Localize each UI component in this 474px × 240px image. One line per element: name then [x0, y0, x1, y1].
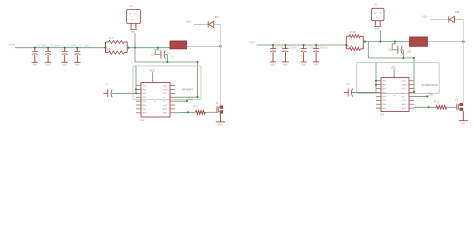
- wire left pins bus: [375, 63, 377, 93]
- wire lower net horizontal: [135, 61, 198, 63]
- pin 7 of IC2: [136, 108, 141, 110]
- pin 11 of IC2: [170, 104, 175, 106]
- ground under C4: [74, 61, 80, 63]
- wire source of T2 to ground: [462, 111, 464, 121]
- junction node left pin 2: [375, 84, 377, 86]
- pin 1 of IC4: [376, 80, 381, 82]
- svg-text:PB2: PB2: [382, 96, 387, 98]
- junction node cap C14: [315, 44, 317, 46]
- pin 14 of IC4: [409, 88, 414, 90]
- svg-text:OSC: OSC: [382, 81, 387, 83]
- svg-text:GND: GND: [301, 64, 306, 66]
- svg-text:+: +: [154, 99, 156, 103]
- ground under C14: [313, 61, 319, 63]
- pin 3 of IC4: [376, 88, 381, 90]
- svg-text:GND: GND: [62, 65, 67, 67]
- pins of G1: [130, 24, 132, 29]
- svg-text:GND: GND: [314, 64, 319, 66]
- fuse F1: [170, 41, 187, 49]
- junction node left pin 1: [375, 80, 377, 82]
- ground under C1: [32, 61, 38, 63]
- svg-text:+: +: [394, 94, 396, 98]
- svg-text:GND: GND: [270, 64, 275, 66]
- ground under C3: [62, 61, 68, 63]
- wire to diode D8: [430, 18, 449, 20]
- svg-text:C7: C7: [105, 84, 109, 87]
- svg-text:GND: GND: [217, 125, 222, 127]
- capacitor C12: [284, 45, 286, 49]
- svg-text:R 7: R 7: [109, 36, 114, 40]
- junction node cap C12: [284, 44, 286, 46]
- svg-text:GND: GND: [130, 31, 135, 33]
- svg-text:VS: VS: [402, 96, 405, 98]
- svg-text:F1: F1: [169, 52, 173, 55]
- wire G2 to rail: [379, 30, 381, 41]
- diode D8: [448, 16, 450, 22]
- svg-text:12: 12: [134, 14, 137, 16]
- wire VB+ rail: [257, 44, 347, 46]
- wire rail to fuse: [129, 47, 170, 49]
- svg-text:IC4: IC4: [380, 113, 385, 117]
- junction node cap C9 / rail: [157, 47, 159, 49]
- wire pin to gate resistor: [175, 111, 188, 114]
- junction node G1 / rail: [134, 47, 136, 49]
- wire pin to gate resistor: [414, 106, 429, 108]
- wire source of T1 to ground: [219, 113, 221, 122]
- wire C16 to lower net: [402, 49, 403, 51]
- wire drain vertical: [219, 24, 221, 105]
- svg-text:AN1: AN1: [402, 103, 407, 106]
- resistor R 7: [105, 42, 107, 53]
- pin 4 of IC4: [376, 92, 381, 94]
- svg-text:PWM: PWM: [402, 85, 407, 87]
- ground under C13: [300, 61, 306, 63]
- pin 10 of IC4: [409, 103, 414, 105]
- pin 5 of IC4: [376, 95, 381, 97]
- junction node left pin 3: [135, 92, 137, 94]
- svg-text:VCC: VCC: [391, 67, 396, 70]
- junction node lower net / right drop: [413, 57, 415, 59]
- svg-text:VS: VS: [163, 101, 166, 103]
- ground under C12: [282, 61, 288, 63]
- wire pin net with label: [414, 95, 428, 97]
- svg-text:PB2: PB2: [142, 101, 147, 103]
- pin 9 of IC2: [170, 112, 175, 114]
- svg-text:HT46R47: HT46R47: [182, 88, 194, 92]
- svg-text:100n: 100n: [279, 47, 285, 50]
- capacitor C2: [47, 48, 49, 52]
- svg-text:VDD: VDD: [402, 81, 407, 83]
- svg-text:3V3: 3V3: [429, 94, 434, 97]
- junction node cap C4: [76, 47, 78, 49]
- junction node pin net corner: [196, 96, 198, 98]
- node resistor pair output: [363, 41, 365, 43]
- ground under T1: [216, 121, 225, 123]
- component G2 (boxed part): [372, 8, 385, 20]
- pin 14 of IC2: [170, 92, 175, 94]
- wire diode D8 to drain line: [454, 18, 463, 20]
- svg-text:R 8: R 8: [106, 48, 111, 52]
- wire rail to lower net: [367, 42, 369, 58]
- junction node resistor pair input: [104, 47, 106, 49]
- pin 13 of IC2: [170, 96, 175, 98]
- svg-text:+: +: [376, 15, 378, 19]
- junction node cap C13: [303, 44, 305, 46]
- svg-text:100n: 100n: [310, 47, 316, 50]
- svg-text:C9: C9: [151, 53, 155, 56]
- junction node drain line: [219, 45, 222, 48]
- wire R 12 to gate: [447, 106, 457, 108]
- ground under T2: [459, 120, 468, 122]
- svg-text:AN1: AN1: [163, 108, 168, 111]
- junction node lower net / right drop: [196, 61, 198, 63]
- pin 6 of IC4: [376, 99, 381, 101]
- pins of G2: [374, 21, 376, 26]
- svg-text:12: 12: [379, 12, 382, 14]
- pin 15 of IC2: [170, 88, 175, 90]
- svg-text:GND: GND: [142, 113, 147, 115]
- svg-text:R 12: R 12: [434, 100, 440, 104]
- capacitor C17: [344, 92, 348, 94]
- left channel driver circuit: [8, 4, 225, 127]
- svg-text:100n: 100n: [292, 47, 298, 50]
- resistor R 8: [126, 42, 128, 53]
- resistor R 12: [436, 106, 447, 110]
- svg-text:10u: 10u: [170, 56, 175, 59]
- svg-text:T2: T2: [455, 99, 458, 102]
- svg-text:IO: IO: [163, 97, 166, 99]
- transistor T1 (n-MOSFET): [216, 106, 218, 113]
- capacitor C16: [392, 42, 398, 50]
- svg-text:GND: GND: [460, 123, 465, 125]
- wire C7 to pin: [112, 92, 136, 94]
- node resistor pair output: [127, 47, 128, 49]
- svg-text:C3: C3: [67, 44, 71, 47]
- op-amp / MCU IC2: [141, 82, 170, 117]
- svg-text:AN0: AN0: [402, 107, 407, 110]
- svg-text:G1: G1: [129, 4, 133, 8]
- resistor R 5: [196, 111, 206, 115]
- svg-text:GND: GND: [46, 65, 51, 67]
- svg-text:PB0: PB0: [142, 109, 147, 111]
- pin 6 of IC2: [136, 104, 141, 106]
- fuse F2: [410, 37, 428, 46]
- svg-text:IC2: IC2: [140, 118, 145, 122]
- junction node cap C11: [272, 44, 274, 46]
- junction node left pin 2: [135, 88, 137, 90]
- junction node lower net / cap: [402, 57, 404, 59]
- wire R 5 to gate: [205, 111, 217, 113]
- capacitor C1: [34, 48, 36, 52]
- svg-text:R 5: R 5: [194, 105, 199, 109]
- capacitor C4: [76, 48, 78, 52]
- svg-text:100n: 100n: [41, 44, 47, 47]
- component G1 (boxed part): [127, 10, 141, 24]
- pin 8 of IC4: [376, 107, 381, 109]
- pin 13 of IC4: [409, 92, 414, 94]
- svg-text:OUT: OUT: [402, 100, 407, 102]
- svg-text:R 10: R 10: [350, 30, 356, 34]
- svg-text:PB1: PB1: [142, 105, 147, 107]
- right channel driver circuit: [249, 3, 468, 126]
- pin 4 of IC2: [136, 96, 141, 98]
- svg-text:T1: T1: [215, 102, 218, 105]
- svg-text:100n: 100n: [84, 44, 90, 47]
- svg-text:C1: C1: [37, 44, 41, 47]
- module outline box: [357, 63, 440, 94]
- svg-text:PLE: PLE: [402, 89, 407, 91]
- svg-text:PB5: PB5: [142, 89, 147, 91]
- svg-text:G2: G2: [374, 3, 378, 7]
- wire C9 to lower net: [165, 54, 167, 56]
- svg-text:PB4: PB4: [142, 93, 147, 95]
- junction node cap C1: [34, 47, 36, 49]
- wire rail to lower net: [134, 48, 136, 62]
- pin 16 of IC2: [170, 85, 175, 87]
- transistor T2 (n-MOSFET): [456, 104, 458, 111]
- pin 12 of IC2: [170, 100, 175, 102]
- wire drain vertical: [462, 19, 464, 103]
- module outline box: [133, 66, 201, 99]
- svg-text:D4: D4: [215, 15, 219, 19]
- wire lower net horizontal: [368, 57, 414, 59]
- svg-text:100n: 100n: [54, 44, 60, 47]
- svg-text:VDD: VDD: [163, 85, 168, 87]
- pin 8 of IC2: [136, 112, 141, 114]
- svg-text:PB0: PB0: [382, 104, 387, 106]
- wire G1 to rail: [134, 33, 136, 47]
- wire fuse to drain line: [427, 41, 463, 43]
- wire lower net right drop: [413, 58, 415, 92]
- junction node lower net / cap: [166, 61, 168, 63]
- wire lower net right drop: [197, 62, 199, 97]
- junction node gate net: [427, 106, 429, 108]
- junction node pin net corner: [413, 91, 415, 93]
- wire fuse to drain line: [187, 45, 221, 47]
- pin 2 of IC4: [376, 84, 381, 86]
- svg-text:PLE: PLE: [163, 93, 168, 95]
- svg-text:D8: D8: [455, 10, 459, 14]
- svg-text:GND: GND: [375, 28, 380, 30]
- wire diode D4 to drain line: [214, 23, 221, 25]
- resistor R 11: [362, 36, 364, 49]
- svg-text:VB+: VB+: [8, 43, 14, 47]
- junction node resistor pair input: [345, 44, 347, 46]
- junction node cap C16 / rail: [394, 41, 396, 43]
- wire rail to fuse: [365, 41, 410, 43]
- wire C17 to pin: [352, 92, 376, 94]
- ground under C2: [45, 61, 51, 63]
- svg-text:HT46R47EVB: HT46R47EVB: [421, 83, 438, 87]
- wire left pins bus: [135, 66, 137, 93]
- pin 16 of IC4: [409, 80, 414, 82]
- svg-text:+: +: [132, 18, 134, 22]
- svg-text:VB+: VB+: [186, 20, 192, 24]
- svg-text:GND: GND: [32, 65, 37, 67]
- svg-text:VB+: VB+: [249, 41, 255, 45]
- pin 12 of IC4: [409, 95, 414, 97]
- capacitor C13: [303, 45, 305, 49]
- svg-text:PB4: PB4: [382, 89, 387, 91]
- svg-text:AN0: AN0: [163, 112, 168, 115]
- capacitor C7: [103, 92, 107, 94]
- svg-text:GND: GND: [75, 65, 80, 67]
- svg-text:12: 12: [129, 14, 132, 16]
- pin 3 of IC2: [136, 92, 141, 94]
- svg-text:R 11: R 11: [347, 44, 353, 48]
- pin 7 of IC4: [376, 103, 381, 105]
- junction node cap C2: [47, 47, 49, 49]
- svg-text:C17: C17: [346, 83, 351, 86]
- capacitor C11: [272, 45, 274, 49]
- svg-text:PB3: PB3: [142, 97, 147, 99]
- svg-text:OUT: OUT: [163, 105, 168, 107]
- svg-text:100n: 100n: [71, 44, 77, 47]
- svg-text:PB5: PB5: [382, 85, 387, 87]
- resistor R 10: [345, 36, 347, 49]
- diode D4: [207, 21, 209, 27]
- junction node gate net: [187, 111, 189, 113]
- svg-text:VB+: VB+: [422, 15, 428, 19]
- svg-text:PB1: PB1: [382, 100, 387, 102]
- svg-text:VCC: VCC: [150, 70, 155, 73]
- pin 5 of IC2: [136, 100, 141, 102]
- svg-text:C2: C2: [50, 44, 54, 47]
- junction node G2 / rail: [379, 41, 381, 43]
- svg-text:C4: C4: [79, 44, 83, 47]
- svg-text:PWM: PWM: [163, 89, 168, 91]
- svg-text:IO: IO: [402, 92, 405, 94]
- wire to diode D4: [194, 23, 208, 25]
- junction node drain line: [462, 40, 465, 43]
- ground under C11: [270, 61, 276, 63]
- svg-text:GND: GND: [283, 64, 288, 66]
- svg-text:OSC: OSC: [142, 85, 147, 87]
- pin 10 of IC2: [170, 108, 175, 110]
- pin 1 of IC2: [136, 85, 141, 87]
- capacitor C14: [315, 45, 317, 49]
- svg-text:3V3: 3V3: [189, 98, 194, 101]
- pin 15 of IC4: [409, 84, 414, 86]
- svg-text:100n: 100n: [322, 47, 328, 50]
- pin 2 of IC2: [136, 88, 141, 90]
- wire VB+ rail: [15, 47, 106, 49]
- svg-text:C16: C16: [388, 49, 393, 52]
- pin 9 of IC4: [409, 107, 414, 109]
- op-amp / MCU IC4: [381, 78, 409, 112]
- junction node cap C3: [64, 47, 66, 49]
- pin 11 of IC4: [409, 99, 414, 101]
- capacitor C9: [155, 48, 161, 55]
- capacitor C3: [64, 48, 66, 52]
- svg-text:GND: GND: [382, 108, 387, 110]
- wire pin net with label: [175, 100, 187, 102]
